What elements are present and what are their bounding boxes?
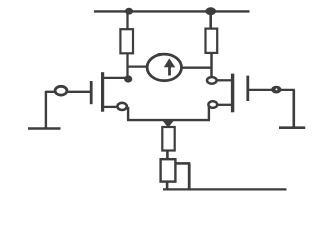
- resistor R3 (upper tail resistor): [162, 127, 174, 151]
- node: junction dot on rail above R2: [205, 7, 216, 15]
- wire: Q1 gate to left terminal: [45, 91, 90, 93]
- wire: bottom rail: [163, 188, 287, 190]
- resistor R4 (lower tail resistor): [161, 159, 176, 181]
- wire: tap branch right from between R3 and R4: [175, 162, 191, 165]
- wire: R2 bottom to right drain bubble: [210, 53, 213, 77]
- node: right output bubble: [272, 86, 281, 93]
- wire: R4 bottom stub: [166, 182, 169, 190]
- blip on top of current source circle: [157, 53, 161, 56]
- node: tail junction arrowhead into R3: [162, 119, 175, 128]
- current source I1 (circle): [147, 54, 181, 81]
- wire: rail to R1 top: [126, 11, 128, 29]
- transistor Q2 channel bar: [231, 74, 234, 113]
- wire: common source horizontal to junction: [127, 119, 210, 121]
- wire: right source elbow down: [208, 106, 210, 120]
- wire: left source elbow down: [127, 107, 129, 121]
- transistor Q2 gate bar: [246, 76, 249, 101]
- wire: positive supply rail: [94, 10, 250, 12]
- wire: Q2 source lead to bubble: [217, 104, 231, 106]
- wire: current source left terminal: [128, 65, 148, 67]
- wire: right terminal down to ground: [292, 90, 295, 128]
- wire: R1 bottom to left drain node: [126, 53, 128, 79]
- transistor Q1 channel bar: [101, 72, 104, 112]
- wire: left terminal down to ground: [45, 91, 47, 129]
- resistor R1 (left load): [120, 29, 133, 53]
- node: right drain bubble: [207, 77, 217, 84]
- resistor R2 (right load): [206, 29, 218, 53]
- node: right source bubble: [208, 101, 217, 108]
- wire: rail to R2 top: [209, 11, 212, 29]
- ground: right ground bar: [279, 126, 305, 129]
- wire: tap branch down to bottom rail: [188, 163, 191, 189]
- node: left drain junction dot: [124, 75, 132, 82]
- current source I1 arrow (up): [164, 58, 176, 75]
- ground: left ground bar: [28, 127, 61, 130]
- wire: current source right terminal: [181, 67, 210, 69]
- node: junction dot on rail above R1: [125, 8, 133, 15]
- node: left input bubble: [55, 86, 67, 95]
- wire: Q1 drain lead to left drain node: [104, 77, 128, 79]
- wire: R3 bottom to R4 top: [166, 151, 169, 160]
- wire: Q1 source lead to bubble: [104, 106, 118, 108]
- transistor Q1 gate bar: [90, 81, 93, 104]
- node: left source bubble: [117, 103, 126, 110]
- wire: Q2 gate to right terminal: [249, 89, 295, 91]
- wire: right drain bubble to Q2 channel: [217, 79, 232, 81]
